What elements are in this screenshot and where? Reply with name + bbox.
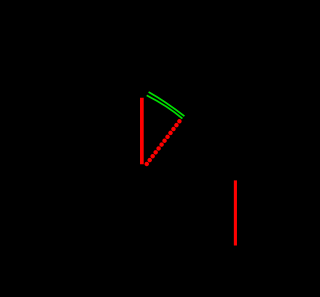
green double arc, lower stroke [147, 95, 183, 118]
red dotted segment (diagonal) [147, 121, 180, 164]
red segment 2 (vertical, right) [234, 180, 237, 245]
green double arc, upper stroke [149, 92, 185, 116]
red segment 1 (vertical, left) [140, 98, 144, 165]
